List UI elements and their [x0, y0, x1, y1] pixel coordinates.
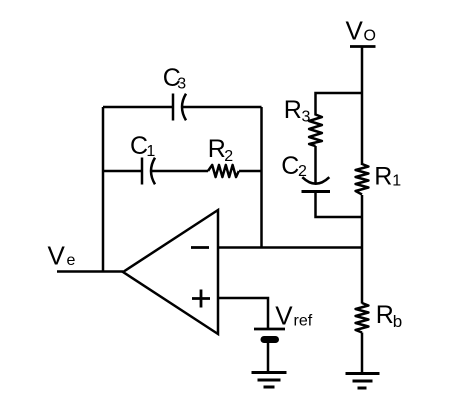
svg-text:R: R: [374, 163, 392, 191]
capacitor C3: [172, 94, 175, 121]
resistor Rb: [356, 303, 369, 333]
svg-text:R: R: [376, 301, 394, 329]
svg-text:ref: ref: [294, 312, 313, 329]
svg-text:1: 1: [392, 173, 401, 190]
wire R2 to feedback vertical: [239, 170, 262, 173]
wire feedback vertical: [260, 107, 263, 248]
svg-text:R: R: [284, 96, 302, 124]
wire top branch right: [182, 106, 262, 109]
label R1: [374, 163, 401, 191]
node VO label: [346, 16, 376, 46]
svg-text:C: C: [130, 132, 148, 160]
label C3: [163, 64, 187, 92]
wire non-inverting input to Vref: [218, 298, 268, 329]
wire R3 to C2: [314, 146, 317, 183]
ground under Vref: [252, 373, 287, 388]
svg-text:3: 3: [177, 76, 186, 93]
label C1: [130, 132, 155, 160]
svg-text:R: R: [208, 135, 226, 163]
plus sign non-inverting input: [192, 290, 210, 308]
wire Rb to ground: [361, 333, 364, 374]
svg-text:e: e: [67, 252, 76, 269]
resistor R3: [309, 115, 322, 147]
wire branch to R3: [316, 93, 363, 116]
svg-text:1: 1: [146, 143, 155, 160]
svg-text:b: b: [393, 312, 402, 331]
wire C2 down and to main line: [316, 192, 363, 218]
resistor R2: [208, 165, 239, 177]
wire C1 branch left: [103, 170, 142, 173]
wire C1 to R2: [151, 170, 208, 173]
svg-text:2: 2: [298, 163, 307, 180]
minus sign inverting input: [191, 246, 209, 249]
svg-text:O: O: [364, 28, 376, 45]
label Vref: [275, 300, 312, 330]
label Rb: [376, 301, 402, 331]
wire VO down to R1: [361, 47, 364, 166]
svg-text:V: V: [48, 240, 66, 270]
svg-text:V: V: [275, 300, 293, 330]
svg-text:3: 3: [302, 109, 311, 126]
battery Vref cell: [264, 336, 276, 343]
capacitor C1: [141, 158, 144, 185]
ground under Rb: [346, 374, 380, 389]
capacitor C2: [302, 177, 329, 184]
label R3: [284, 96, 311, 126]
svg-text:C: C: [281, 152, 299, 180]
wire Ve input: [57, 270, 123, 273]
wire Vref to ground: [267, 341, 270, 372]
label R2: [208, 135, 234, 165]
wire top branch left: [103, 106, 173, 109]
label C2: [281, 152, 307, 180]
terminal bar VO: [350, 45, 376, 48]
svg-text:2: 2: [224, 148, 233, 165]
wire R1 down to Rb: [361, 195, 364, 304]
wire inverting input: [218, 246, 362, 249]
battery Vref top plate: [254, 328, 285, 331]
node Ve label: [48, 240, 76, 270]
resistor R1: [356, 164, 369, 195]
wire left vertical: [102, 107, 105, 272]
op-amp U1: [123, 210, 218, 334]
svg-text:V: V: [346, 16, 364, 46]
